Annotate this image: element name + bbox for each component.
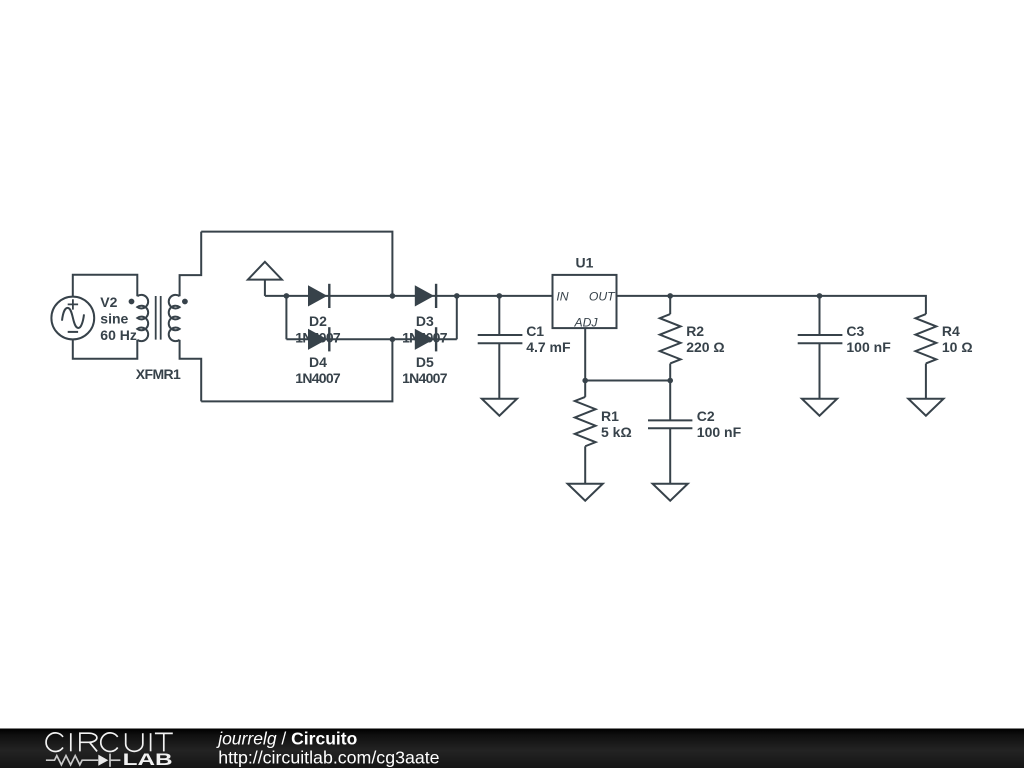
C2 labels	[697, 408, 742, 440]
voltage source V2	[51, 297, 94, 340]
diode D4	[308, 327, 329, 351]
secondary dot	[182, 299, 188, 305]
svg-text:jourrelg / Circuito: jourrelg / Circuito	[216, 729, 357, 749]
svg-text:R1: R1	[601, 408, 619, 424]
svg-text:C3: C3	[846, 323, 864, 339]
D3 labels	[402, 313, 448, 346]
svg-text:220 Ω: 220 Ω	[686, 339, 724, 355]
svg-text:4.7 mF: 4.7 mF	[526, 339, 571, 355]
wire V2 top to primary	[73, 275, 138, 297]
svg-text:R2: R2	[686, 323, 704, 339]
ground for C2	[653, 484, 688, 501]
capacitor C3	[798, 296, 843, 399]
net flag arrow	[248, 262, 282, 296]
ground for C1	[482, 399, 517, 416]
logo resistor-diode squiggle	[46, 754, 121, 767]
svg-text:ADJ: ADJ	[573, 315, 598, 329]
V2 labels	[100, 294, 137, 343]
top diode row wire	[265, 295, 553, 297]
transformer XFMR1 primary coil	[137, 295, 148, 341]
diode D3	[415, 284, 436, 308]
primary dot	[129, 299, 135, 305]
node dot C	[454, 293, 460, 299]
R4 labels	[942, 323, 973, 355]
svg-text:100 nF: 100 nF	[697, 424, 742, 440]
footer bar	[0, 729, 1024, 768]
R2 labels	[686, 323, 724, 355]
wire V2 bottom to primary	[73, 339, 138, 358]
node dot B top	[390, 293, 396, 299]
node dot C1 top	[497, 293, 503, 299]
wire OUT rail	[617, 296, 926, 314]
top rail wire	[201, 232, 392, 296]
wire ADJ to R2 bottom	[585, 380, 670, 382]
svg-text:http://circuitlab.com/cg3aate: http://circuitlab.com/cg3aate	[218, 747, 439, 767]
svg-text:V2: V2	[100, 294, 117, 310]
node dot R2 bottom	[667, 378, 673, 384]
C1 labels	[526, 323, 571, 355]
resistor R1	[575, 381, 596, 484]
svg-text:C1: C1	[526, 323, 544, 339]
node dot B bottom	[390, 337, 396, 343]
node dot R2 top	[667, 293, 673, 299]
bottom diode row wire	[286, 338, 456, 340]
svg-text:OUT: OUT	[589, 289, 616, 303]
svg-text:100 nF: 100 nF	[846, 339, 891, 355]
svg-text:sine: sine	[100, 310, 128, 326]
svg-text:D4: D4	[309, 354, 327, 370]
op-amp U1 regulator box	[553, 275, 617, 328]
R1 labels	[601, 408, 632, 440]
node dot ADJ	[582, 378, 588, 384]
svg-text:D2: D2	[309, 313, 327, 329]
node dot C3 top	[817, 293, 823, 299]
node dot A	[284, 293, 290, 299]
svg-text:C2: C2	[697, 408, 715, 424]
transformer XFMR1 secondary coil	[169, 295, 180, 341]
wire left vertical A	[285, 296, 287, 339]
svg-text:D5: D5	[416, 354, 434, 370]
D5 labels	[402, 354, 448, 386]
D4 labels	[295, 354, 341, 386]
resistor R2	[660, 296, 681, 381]
svg-text:IN: IN	[556, 289, 568, 303]
capacitor C2	[648, 381, 692, 484]
svg-text:60 Hz: 60 Hz	[100, 327, 137, 343]
svg-text:5 kΩ: 5 kΩ	[601, 424, 632, 440]
diode D2	[308, 284, 329, 308]
wire secondary top to top rail	[180, 232, 202, 297]
svg-text:LAB: LAB	[123, 750, 173, 768]
transformer core	[156, 296, 161, 340]
svg-text:R4: R4	[942, 323, 960, 339]
ground for R1	[568, 484, 603, 501]
svg-text:U1: U1	[576, 254, 594, 270]
svg-text:1N4007: 1N4007	[402, 370, 448, 386]
svg-text:XFMR1: XFMR1	[136, 366, 181, 382]
wire secondary bottom to bottom rail	[180, 340, 202, 402]
ground for C3	[802, 399, 837, 416]
C3 labels	[846, 323, 891, 355]
diode D5	[415, 327, 436, 351]
wire right vertical C	[456, 296, 458, 339]
ground for R4	[908, 399, 943, 416]
svg-text:10 Ω: 10 Ω	[942, 339, 973, 355]
svg-text:D3: D3	[416, 313, 434, 329]
resistor R4	[916, 314, 937, 399]
logo CIRCUIT letters	[46, 733, 173, 752]
wire ADJ down	[584, 328, 586, 380]
svg-text:1N4007: 1N4007	[295, 370, 341, 386]
bottom rail wire	[201, 339, 392, 401]
capacitor C1	[478, 296, 523, 399]
D2 labels	[295, 313, 341, 346]
